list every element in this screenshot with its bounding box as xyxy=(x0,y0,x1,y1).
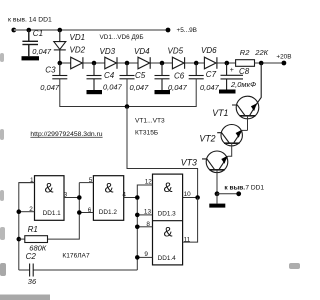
wire: VT2 base / VT3 emitter xyxy=(228,143,232,156)
svg-text:0,047: 0,047 xyxy=(168,83,188,92)
svg-text:VT1...VT3: VT1...VT3 xyxy=(135,118,165,125)
node: VT3 base / ground xyxy=(215,191,220,196)
svg-text:5: 5 xyxy=(89,177,93,184)
wire: left feedback vertical (pins 1,2 / R1 / C2) xyxy=(19,183,35,270)
wire: bus down-leg to DD1.3 output net xyxy=(127,107,198,198)
wire: VT3 base lead to ground node xyxy=(216,170,218,194)
svg-text:http://299792458.3dn.ru: http://299792458.3dn.ru xyxy=(30,131,102,138)
transistor VT1 xyxy=(232,63,261,119)
svg-text:0,047: 0,047 xyxy=(103,83,123,92)
terminal: +20В xyxy=(276,54,291,66)
svg-text:VD4: VD4 xyxy=(134,47,150,56)
svg-text:2: 2 xyxy=(29,206,33,213)
terminal: +5...9В xyxy=(166,27,197,34)
svg-text:&: & xyxy=(105,180,114,195)
svg-text:7 DD1: 7 DD1 xyxy=(245,185,264,192)
svg-text:VD5: VD5 xyxy=(168,46,184,55)
wire: pump bus (C3/C5/C7 bottoms) xyxy=(60,79,196,107)
svg-text:10: 10 xyxy=(184,191,192,198)
diode VD2 xyxy=(71,57,83,69)
svg-text:22К: 22К xyxy=(254,48,268,57)
capacitor C6 xyxy=(155,63,170,90)
node: row / C6 xyxy=(160,61,165,66)
node: pin 4 junction xyxy=(135,195,140,200)
svg-text:2,0мкФ: 2,0мкФ xyxy=(230,80,256,89)
svg-text:C3: C3 xyxy=(45,65,56,74)
wire: to к выв. 7 terminal xyxy=(217,193,239,195)
diode VD6 xyxy=(204,57,217,69)
svg-text:&: & xyxy=(164,180,173,195)
svg-text:к выв. 14 DD1: к выв. 14 DD1 xyxy=(8,17,52,24)
capacitor C2 xyxy=(30,264,34,277)
svg-text:3: 3 xyxy=(64,191,68,198)
wire: right input vertical (pins 12,13,8,9 / bottom bus) xyxy=(137,185,152,270)
svg-text:VT2: VT2 xyxy=(199,133,215,143)
pin 2 xyxy=(19,211,35,213)
pin 9 xyxy=(137,256,152,258)
resistor R1 xyxy=(19,236,48,243)
svg-text:+20В: +20В xyxy=(276,54,291,61)
svg-text:VD1: VD1 xyxy=(70,33,86,42)
diode VD5 xyxy=(172,57,184,69)
node: pin10 net xyxy=(195,195,200,200)
svg-text:11: 11 xyxy=(184,236,191,243)
terminal: к выв. 14 DD1 xyxy=(8,17,52,33)
svg-text:R2: R2 xyxy=(240,48,250,57)
node: row / C3 xyxy=(58,61,63,66)
svg-text:к выв.: к выв. xyxy=(224,185,245,192)
capacitor C4 xyxy=(87,63,102,90)
ground (below VT3 node) xyxy=(216,194,218,204)
wire: VT1 base / VT2 emitter xyxy=(247,116,249,131)
svg-text:C5: C5 xyxy=(135,71,146,80)
svg-text:&: & xyxy=(164,224,173,239)
diode VD1 xyxy=(54,30,66,63)
ground (under C1) xyxy=(22,56,40,60)
svg-text:C4: C4 xyxy=(104,71,115,80)
wire: R2 to +20В xyxy=(255,62,284,64)
pin 5 xyxy=(79,182,93,184)
node: bus / C5 leg xyxy=(125,104,130,109)
wire: pin3/5/6/R1-right vertical xyxy=(48,183,80,240)
node: rail / C1 xyxy=(27,28,32,33)
pin 12 xyxy=(137,184,152,186)
node: rail / VD1 xyxy=(58,28,63,33)
pin 8 xyxy=(137,226,152,228)
svg-text:VD6: VD6 xyxy=(201,46,217,55)
svg-text:C1: C1 xyxy=(33,29,43,38)
pin 1 xyxy=(19,182,35,184)
svg-text:4: 4 xyxy=(122,191,126,198)
svg-text:КТ315Б: КТ315Б xyxy=(135,130,158,137)
node: pin 6 junction xyxy=(77,210,82,215)
node: pin 2 junction xyxy=(17,209,22,214)
gate DD1.3 / DD1.4 xyxy=(153,174,183,265)
pin 11 / wire: pin10 to pin11 xyxy=(183,198,198,243)
gate DD1.2 xyxy=(93,176,123,221)
capacitor C5 xyxy=(120,63,135,79)
svg-text:VT3: VT3 xyxy=(181,157,197,167)
svg-text:0,047: 0,047 xyxy=(32,47,52,56)
node: R2 / VT1 emitter riser xyxy=(259,61,264,66)
node: pin 8 junction xyxy=(135,225,140,230)
svg-text:DD1.4: DD1.4 xyxy=(158,255,177,262)
svg-text:VT1: VT1 xyxy=(212,108,228,118)
svg-text:C6: C6 xyxy=(174,72,185,81)
node: pin 9 junction xyxy=(135,255,140,260)
svg-text:DD1.1: DD1.1 xyxy=(43,210,62,217)
pin 6 xyxy=(79,212,93,214)
terminal: к выв. 7 DD1 xyxy=(224,185,264,197)
svg-text:VD2: VD2 xyxy=(70,46,86,55)
svg-text:R1: R1 xyxy=(28,225,38,234)
svg-text:&: & xyxy=(45,181,54,196)
capacitor C8 (polarized) xyxy=(221,63,244,90)
svg-text:8: 8 xyxy=(146,221,150,228)
resistor R2 xyxy=(236,60,255,67)
capacitor C7 xyxy=(189,63,204,79)
svg-text:C7: C7 xyxy=(206,70,217,79)
svg-text:К176ЛА7: К176ЛА7 xyxy=(62,253,90,260)
pin 3 xyxy=(64,197,79,199)
svg-text:DD1.2: DD1.2 xyxy=(99,209,118,216)
capacitor C1 xyxy=(22,30,38,56)
wire: top supply rail xyxy=(14,29,168,31)
node: row / C4 xyxy=(92,61,97,66)
node: row / C8 / R2 xyxy=(225,61,230,66)
wire: bottom bus xyxy=(19,269,138,271)
svg-text:+: + xyxy=(230,67,234,74)
svg-text:VD3: VD3 xyxy=(100,47,116,56)
svg-text:0,047: 0,047 xyxy=(200,83,220,92)
svg-text:+5...9В: +5...9В xyxy=(177,27,197,34)
node: pin 13 junction xyxy=(135,213,140,218)
pin 13 xyxy=(137,214,152,216)
ground (under C6) xyxy=(155,90,171,94)
capacitor C3 xyxy=(52,63,67,79)
svg-text:0,047: 0,047 xyxy=(40,83,60,92)
svg-text:C2: C2 xyxy=(26,252,37,261)
svg-text:36: 36 xyxy=(28,277,37,286)
transistor VT3 xyxy=(202,151,228,173)
diode VD3 xyxy=(105,57,117,69)
ground (under C8) xyxy=(219,90,236,94)
ground (under C4) xyxy=(87,90,103,94)
svg-text:0,047: 0,047 xyxy=(130,83,150,92)
edge artifacts (decorative) xyxy=(0,53,300,300)
node: row / C7 xyxy=(194,61,199,66)
pin 4 xyxy=(124,197,138,199)
svg-text:9: 9 xyxy=(144,251,148,258)
svg-text:1: 1 xyxy=(30,177,34,184)
svg-text:DD1.3: DD1.3 xyxy=(158,211,177,218)
gate DD1.1 xyxy=(35,176,65,221)
pin 10 xyxy=(183,197,198,199)
label: VT1...VT3 КТ315Б xyxy=(135,118,165,137)
transistor VT2 xyxy=(217,125,242,146)
wire: multiplier row xyxy=(60,62,236,64)
node: row / C5 xyxy=(125,61,130,66)
svg-text:13: 13 xyxy=(144,208,152,215)
svg-text:6: 6 xyxy=(88,207,92,214)
svg-text:12: 12 xyxy=(145,178,153,185)
node: R1 left junction xyxy=(17,237,22,242)
diode VD4 xyxy=(138,57,150,69)
svg-text:C8: C8 xyxy=(239,67,250,76)
node: pin 3 junction xyxy=(77,195,82,200)
svg-text:VD1...VD6 Д9Б: VD1...VD6 Д9Б xyxy=(100,34,144,41)
